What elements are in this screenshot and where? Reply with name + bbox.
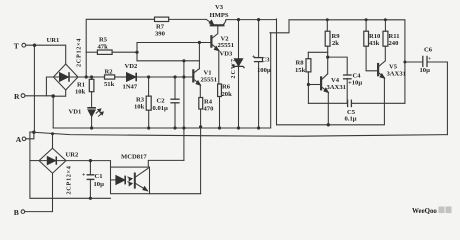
svg-text:10k: 10k [75,89,86,96]
svg-text:C2: C2 [157,98,166,105]
svg-text:R6: R6 [222,84,231,91]
svg-text:R11: R11 [389,33,400,40]
svg-text:R10: R10 [369,33,381,40]
svg-text:2CP12×4: 2CP12×4 [76,38,83,67]
svg-text:51k: 51k [104,81,115,88]
svg-text:C4: C4 [353,72,362,79]
svg-text:+10µ: +10µ [348,79,362,86]
svg-text:WeeQoo: WeeQoo [412,208,437,215]
svg-text:1N47: 1N47 [123,83,138,90]
svg-text:2CW7: 2CW7 [231,58,237,79]
svg-text:R1: R1 [77,82,85,89]
svg-text:240: 240 [389,40,400,47]
svg-text:3AX31: 3AX31 [387,70,406,77]
svg-text:0.01µ: 0.01µ [153,105,169,112]
svg-text:R4: R4 [204,99,213,106]
svg-text:R9: R9 [332,33,341,40]
svg-text:C1: C1 [95,173,103,180]
svg-text:15k: 15k [295,67,306,74]
svg-text:V4: V4 [331,77,340,84]
svg-text:UR2: UR2 [66,151,80,158]
svg-text:C3: C3 [262,56,271,63]
svg-text:R2: R2 [105,69,114,76]
svg-text:B: B [14,208,19,217]
svg-text:T: T [14,42,19,51]
svg-text:470: 470 [204,106,215,113]
svg-text:A: A [16,135,22,144]
svg-text:43k: 43k [369,40,380,47]
svg-text:VD2: VD2 [125,63,139,70]
svg-text:R8: R8 [296,60,305,67]
svg-text:10k: 10k [134,103,145,110]
svg-text:+: + [428,56,431,62]
svg-text:+: + [252,55,256,61]
svg-text:10µ: 10µ [94,181,105,188]
svg-text:MCD817: MCD817 [121,153,147,160]
svg-text:2CP12×4: 2CP12×4 [66,165,73,194]
svg-text:C6: C6 [424,46,433,53]
svg-text:390: 390 [155,30,166,37]
svg-text:20k: 20k [222,91,233,98]
svg-text:47k: 47k [98,43,109,50]
svg-text:VD3: VD3 [220,50,234,57]
svg-text:R: R [14,92,20,101]
svg-text:UR1: UR1 [47,37,60,44]
svg-text:25551: 25551 [201,77,217,84]
svg-text:V1: V1 [204,69,212,76]
svg-text:0.1µ: 0.1µ [345,115,357,122]
svg-text:HMPS: HMPS [210,12,229,19]
svg-text:25551: 25551 [218,42,234,49]
svg-text:100µ: 100µ [257,67,271,74]
svg-text:2k: 2k [332,40,339,47]
svg-text:3AX31: 3AX31 [327,84,346,91]
svg-text:VD1: VD1 [69,109,82,116]
svg-text:V3: V3 [215,4,224,11]
svg-text:+: + [82,173,86,179]
svg-text:10µ: 10µ [420,67,431,74]
